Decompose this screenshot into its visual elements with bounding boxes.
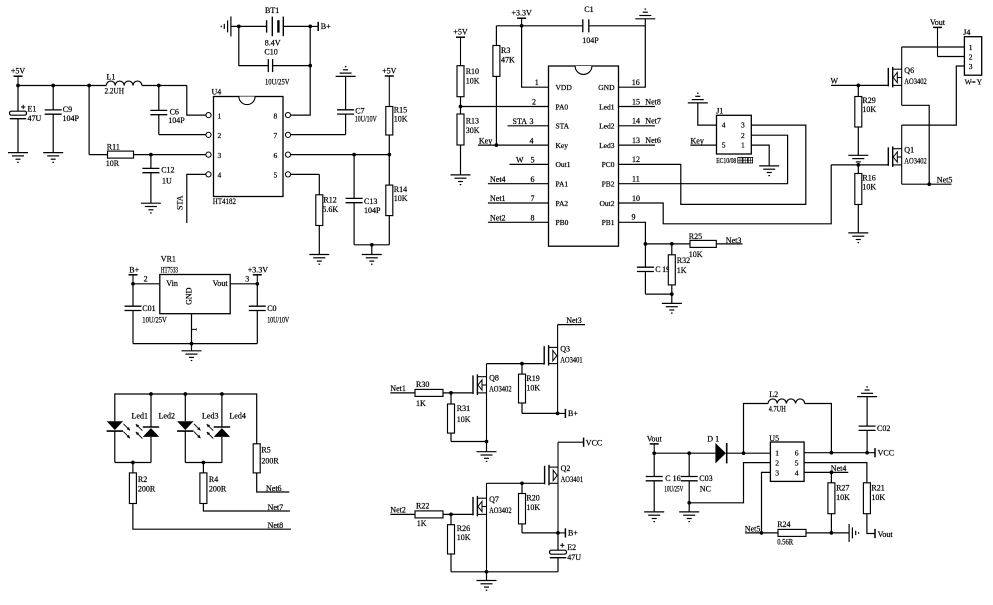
ground bbox=[679, 503, 699, 522]
wire bbox=[744, 404, 769, 454]
svg-text:10K: 10K bbox=[689, 250, 703, 259]
pin number 14 bbox=[632, 117, 640, 126]
svg-text:Net2: Net2 bbox=[490, 214, 506, 223]
pin number 2 bbox=[532, 97, 536, 106]
svg-text:1U: 1U bbox=[162, 176, 172, 185]
svg-text:14: 14 bbox=[632, 117, 640, 126]
svg-text:10K: 10K bbox=[526, 503, 540, 512]
pin number 11 bbox=[632, 175, 640, 184]
wire Net3 bbox=[558, 324, 585, 326]
svg-text:PB0: PB0 bbox=[556, 218, 569, 227]
svg-text:Out1: Out1 bbox=[556, 160, 571, 169]
svg-text:10U/25V: 10U/25V bbox=[142, 316, 167, 325]
svg-text:C1: C1 bbox=[584, 5, 593, 14]
wire bbox=[17, 119, 19, 153]
wire bbox=[88, 86, 90, 155]
svg-text:Vin: Vin bbox=[166, 279, 178, 288]
svg-text:+5V: +5V bbox=[382, 67, 397, 76]
wire pin16 GND bbox=[619, 26, 646, 87]
power port B+ bbox=[558, 409, 579, 418]
svg-text:Q7: Q7 bbox=[489, 495, 499, 504]
net label W bbox=[516, 156, 524, 165]
capacitor C9 104P bbox=[45, 86, 80, 153]
wire bbox=[114, 431, 116, 462]
resistor R3 47K bbox=[493, 26, 515, 145]
pin number 1 bbox=[190, 328, 199, 332]
resistor R20 10K bbox=[519, 483, 541, 533]
svg-text:5: 5 bbox=[274, 171, 278, 180]
svg-text:0.56R: 0.56R bbox=[777, 538, 794, 547]
svg-text:R2: R2 bbox=[138, 475, 147, 484]
svg-text:E2: E2 bbox=[567, 543, 576, 552]
svg-text:9: 9 bbox=[632, 213, 636, 222]
svg-text:R22: R22 bbox=[416, 502, 429, 511]
capacitor C03 NC bbox=[681, 453, 713, 503]
junction bbox=[449, 513, 453, 517]
wire W to Q6 gate bbox=[831, 84, 888, 86]
svg-text:R21: R21 bbox=[871, 484, 884, 493]
junction bbox=[87, 84, 91, 88]
wire pin1 VDD bbox=[522, 26, 549, 87]
net label Net3 bbox=[726, 236, 742, 245]
junction bbox=[830, 531, 834, 535]
svg-text:10K: 10K bbox=[871, 493, 885, 502]
junction bbox=[149, 392, 153, 396]
wire pin2 bbox=[461, 106, 549, 108]
svg-text:Y: Y bbox=[977, 78, 983, 87]
capacitor C7 10U/10V bbox=[337, 106, 377, 134]
junction bbox=[157, 84, 161, 88]
svg-text:BT1: BT1 bbox=[265, 6, 279, 15]
svg-text:Vout: Vout bbox=[647, 434, 663, 443]
wire VCC bbox=[558, 441, 584, 443]
svg-text:Net3: Net3 bbox=[726, 236, 742, 245]
wire J1 pin1 to ground bbox=[751, 145, 769, 166]
svg-text:Net8: Net8 bbox=[645, 97, 661, 106]
ground bbox=[831, 524, 858, 542]
svg-text:2: 2 bbox=[775, 458, 779, 467]
svg-text:Net8: Net8 bbox=[268, 521, 284, 530]
junction bbox=[308, 25, 312, 29]
wire ground rail bbox=[451, 571, 558, 573]
power port VCC bbox=[875, 448, 894, 458]
junction bbox=[687, 451, 691, 455]
transistor Q8 AO3402 bbox=[473, 364, 512, 442]
svg-text:2.2UH: 2.2UH bbox=[105, 86, 125, 95]
svg-text:Led3: Led3 bbox=[599, 141, 615, 150]
net label Net7 bbox=[645, 117, 661, 126]
junction bbox=[742, 451, 746, 455]
wire Q7 drain to Q2 gate bbox=[487, 482, 545, 484]
svg-text:10K: 10K bbox=[394, 194, 408, 203]
svg-text:1: 1 bbox=[969, 43, 973, 52]
svg-text:10K: 10K bbox=[457, 533, 471, 542]
svg-text:B+: B+ bbox=[321, 22, 331, 31]
svg-text:16: 16 bbox=[632, 78, 640, 87]
svg-text:5: 5 bbox=[722, 141, 726, 150]
power port B+ bbox=[310, 22, 331, 31]
svg-text:AO3402: AO3402 bbox=[489, 506, 512, 515]
svg-text:30K: 30K bbox=[466, 126, 480, 135]
resistor R31 10K bbox=[448, 393, 471, 442]
IC VR1 HT7533 bbox=[160, 254, 230, 313]
wire Q8 drain to Q3 gate bbox=[487, 363, 545, 365]
svg-text:3: 3 bbox=[245, 274, 249, 283]
svg-text:104P: 104P bbox=[582, 36, 599, 45]
net label Net1 bbox=[390, 384, 406, 393]
wire Net5 bbox=[902, 183, 952, 185]
svg-text:AO3401: AO3401 bbox=[561, 475, 584, 484]
wire Out2 net to Q1 gate bbox=[831, 164, 888, 166]
wire bbox=[150, 437, 152, 463]
power port Vout bbox=[647, 434, 663, 453]
net label STA bbox=[176, 195, 185, 210]
pin number 4 bbox=[530, 136, 534, 145]
svg-text:Net6: Net6 bbox=[645, 136, 661, 145]
junction bbox=[856, 163, 860, 167]
svg-text:Out2: Out2 bbox=[600, 199, 615, 208]
connector J4 W-Y bbox=[963, 28, 982, 87]
resistor R27 10K bbox=[828, 472, 850, 533]
capacitor E2 47U bbox=[550, 533, 582, 572]
svg-text:1: 1 bbox=[535, 78, 539, 87]
net label Net7 bbox=[268, 503, 284, 512]
ground bbox=[662, 294, 682, 313]
svg-text:7: 7 bbox=[274, 131, 278, 140]
junction bbox=[16, 84, 20, 88]
svg-text:10K: 10K bbox=[466, 77, 480, 86]
wire pin5 W bbox=[510, 163, 549, 165]
svg-text:C9: C9 bbox=[63, 105, 72, 114]
junction bbox=[183, 392, 187, 396]
svg-text:1K: 1K bbox=[417, 519, 427, 528]
net label Key bbox=[479, 136, 492, 145]
net label Key bbox=[691, 136, 704, 145]
svg-text:10U/25V: 10U/25V bbox=[265, 77, 290, 86]
wire bbox=[645, 243, 690, 245]
wire J4 pin3 to Q1 drain bbox=[902, 66, 965, 125]
power port B+ bbox=[129, 265, 140, 283]
ground bbox=[336, 67, 356, 110]
wire pin6 Net4 bbox=[488, 183, 549, 185]
net label Net5 bbox=[937, 175, 953, 184]
junction bbox=[670, 242, 674, 246]
wire bbox=[221, 437, 223, 463]
svg-text:10K: 10K bbox=[457, 415, 471, 424]
ground bbox=[477, 572, 497, 590]
junction bbox=[556, 412, 560, 416]
svg-text:STA: STA bbox=[556, 122, 570, 131]
junction bbox=[485, 570, 489, 574]
svg-text:2: 2 bbox=[969, 52, 973, 61]
svg-text:Q6: Q6 bbox=[904, 66, 914, 75]
wire bbox=[150, 394, 152, 427]
svg-text:10K: 10K bbox=[862, 105, 876, 114]
wire to U4 pin1 bbox=[187, 86, 206, 116]
wire bbox=[221, 394, 223, 427]
pin number 1 bbox=[535, 78, 539, 87]
net label Net1 bbox=[490, 194, 506, 203]
junction bbox=[485, 440, 489, 444]
wire U4 pin5 bbox=[291, 173, 320, 175]
net label Net8 bbox=[268, 521, 284, 530]
wire bbox=[727, 452, 771, 454]
transistor Q2 AO3401 bbox=[545, 442, 584, 533]
pin number 8 bbox=[531, 214, 535, 223]
svg-text:EC10/08: EC10/08 bbox=[716, 157, 736, 165]
wire pin8 Net2 bbox=[488, 221, 549, 223]
wire LED2 pair bottom bbox=[185, 462, 222, 464]
svg-text:R11: R11 bbox=[107, 142, 120, 151]
wire J1 pin4 to ground bbox=[698, 103, 717, 125]
wire bbox=[654, 452, 715, 454]
connector J1 EC10 encoder bbox=[716, 107, 752, 166]
wire VR1 pin2 bbox=[133, 283, 160, 285]
svg-text:47K: 47K bbox=[501, 56, 515, 65]
junction bbox=[760, 531, 764, 535]
net label Net6 bbox=[266, 484, 282, 493]
svg-text:10: 10 bbox=[632, 194, 640, 203]
svg-text:R19: R19 bbox=[526, 374, 539, 383]
ground bbox=[759, 166, 779, 176]
resistor R22 1K bbox=[390, 502, 473, 528]
svg-text:L2: L2 bbox=[769, 390, 778, 399]
svg-text:Led2: Led2 bbox=[159, 411, 175, 420]
svg-text:4: 4 bbox=[722, 121, 726, 130]
svg-text:Net6: Net6 bbox=[266, 484, 282, 493]
svg-text:+3.3V: +3.3V bbox=[248, 265, 269, 274]
pin number 3 bbox=[530, 117, 534, 126]
svg-text:Vout: Vout bbox=[930, 18, 946, 27]
pin number 9 bbox=[632, 213, 636, 222]
wire J1 pin5 Key bbox=[690, 144, 716, 146]
wire pin7 Net1 bbox=[488, 202, 549, 204]
wire to U4 pin2 bbox=[159, 134, 206, 136]
svg-text:8: 8 bbox=[531, 214, 535, 223]
junction bbox=[520, 24, 524, 28]
ground bbox=[362, 245, 382, 264]
junction bbox=[449, 391, 453, 395]
power port +3.3V bbox=[511, 9, 532, 26]
svg-text:Q8: Q8 bbox=[489, 374, 499, 383]
wire bbox=[645, 293, 671, 295]
svg-text:U5: U5 bbox=[769, 434, 779, 443]
wire U4 pin4 STA bbox=[187, 174, 206, 223]
svg-text:Q3: Q3 bbox=[560, 344, 570, 353]
junction bbox=[387, 153, 391, 157]
wire J4 pin1 bbox=[902, 46, 965, 48]
junction bbox=[131, 282, 135, 286]
transistor Q3 AO3401 bbox=[544, 325, 583, 414]
capacitor C12 1U bbox=[142, 155, 174, 204]
wire +5V rail bbox=[18, 85, 106, 87]
wire ground rail bbox=[133, 343, 257, 345]
pin number 7 bbox=[531, 194, 535, 203]
svg-text:R29: R29 bbox=[862, 96, 875, 105]
svg-text:2: 2 bbox=[741, 131, 745, 140]
svg-text:NC: NC bbox=[700, 484, 711, 493]
svg-text:10R: 10R bbox=[106, 159, 120, 168]
junction bbox=[220, 392, 224, 396]
junction bbox=[856, 84, 860, 88]
svg-text:200R: 200R bbox=[261, 457, 279, 466]
resistor R11 10R bbox=[89, 142, 206, 168]
svg-text:15: 15 bbox=[632, 97, 640, 106]
wire pin11 to J1 pin2 bbox=[619, 135, 788, 184]
svg-text:R3: R3 bbox=[501, 46, 510, 55]
svg-text:GND: GND bbox=[185, 287, 194, 305]
power port Vout bbox=[930, 18, 946, 57]
svg-text:B+: B+ bbox=[129, 265, 139, 274]
ground bbox=[309, 255, 329, 265]
svg-text:10K: 10K bbox=[394, 114, 408, 123]
LED Led1 bbox=[107, 411, 148, 438]
wire bbox=[867, 514, 875, 534]
svg-text:Led1: Led1 bbox=[599, 102, 615, 111]
svg-text:7: 7 bbox=[531, 194, 535, 203]
wire pin14 Net7 bbox=[619, 125, 656, 127]
transistor Q6 AO3402 bbox=[888, 47, 927, 105]
net label Net4 bbox=[831, 464, 847, 473]
wire U5 pin5 to R21 bbox=[804, 463, 867, 483]
ground bbox=[451, 175, 471, 185]
pin number 15 bbox=[632, 97, 640, 106]
svg-text:R30: R30 bbox=[416, 380, 429, 389]
svg-text:R27: R27 bbox=[836, 484, 849, 493]
ground bbox=[644, 512, 664, 522]
junction bbox=[652, 451, 656, 455]
svg-text:200R: 200R bbox=[209, 485, 227, 494]
inductor L1 2.2UH bbox=[105, 73, 142, 96]
svg-text:Net1: Net1 bbox=[390, 384, 406, 393]
power port Vout bbox=[875, 529, 893, 539]
svg-text:3: 3 bbox=[741, 121, 745, 130]
svg-text:R16: R16 bbox=[862, 174, 875, 183]
svg-text:+3.3V: +3.3V bbox=[511, 9, 532, 18]
svg-text:R10: R10 bbox=[466, 67, 479, 76]
svg-text:GND: GND bbox=[598, 83, 615, 92]
svg-text:J1: J1 bbox=[716, 107, 723, 116]
wire J4 pin2 bbox=[938, 56, 965, 58]
net label Net3 bbox=[566, 316, 582, 325]
wire B+ to U4 pin8 bbox=[291, 26, 311, 115]
svg-text:Net4: Net4 bbox=[490, 175, 506, 184]
capacitor C16 10U/25V bbox=[646, 453, 684, 512]
pin number 2 bbox=[144, 274, 148, 283]
svg-text:AO3402: AO3402 bbox=[904, 157, 927, 166]
wire bbox=[805, 404, 832, 453]
svg-text:12: 12 bbox=[632, 155, 640, 164]
IC U5 bbox=[769, 434, 804, 481]
svg-text:4: 4 bbox=[218, 171, 222, 180]
net label Net5 bbox=[745, 524, 761, 533]
svg-text:10K: 10K bbox=[526, 384, 540, 393]
junction bbox=[670, 292, 674, 296]
pin number 5 bbox=[531, 156, 535, 165]
capacitor C13 104P bbox=[346, 155, 381, 245]
junction bbox=[149, 153, 153, 157]
svg-text:1K: 1K bbox=[677, 266, 687, 275]
svg-text:104P: 104P bbox=[364, 206, 381, 215]
svg-text:C0: C0 bbox=[267, 304, 276, 313]
svg-text:2: 2 bbox=[144, 274, 148, 283]
svg-text:13: 13 bbox=[632, 136, 640, 145]
svg-text:HT4182: HT4182 bbox=[213, 197, 236, 206]
svg-text:R32: R32 bbox=[677, 256, 690, 265]
wire pin4 Key bbox=[478, 144, 549, 146]
svg-text:1: 1 bbox=[190, 328, 199, 332]
svg-text:PC0: PC0 bbox=[602, 160, 615, 169]
svg-text:Led1: Led1 bbox=[132, 411, 148, 420]
svg-text:R20: R20 bbox=[526, 494, 539, 503]
ground bbox=[688, 93, 708, 103]
ground bbox=[8, 153, 28, 163]
wire U5 pin6 VCC bbox=[804, 452, 875, 454]
svg-text:10U/25V: 10U/25V bbox=[664, 484, 683, 493]
transistor Q7 AO3402 bbox=[473, 483, 512, 572]
svg-text:6: 6 bbox=[274, 151, 278, 160]
wire bbox=[354, 244, 389, 246]
svg-text:+5V: +5V bbox=[453, 28, 468, 37]
capacitor C19 bbox=[637, 244, 670, 294]
resistor R32 1K bbox=[668, 244, 690, 294]
capacitor C0 10U/10V bbox=[249, 284, 290, 344]
wire pin3 STA bbox=[508, 125, 549, 127]
ground bbox=[182, 344, 202, 361]
junction bbox=[520, 362, 524, 366]
svg-text:R13: R13 bbox=[466, 117, 479, 126]
svg-text:Q1: Q1 bbox=[904, 146, 914, 155]
svg-text:8: 8 bbox=[274, 111, 278, 120]
resistor R29 10K bbox=[855, 85, 877, 155]
junction bbox=[687, 501, 691, 505]
junction bbox=[927, 182, 931, 186]
svg-text:10U/10V: 10U/10V bbox=[355, 114, 377, 123]
resistor R15 10K bbox=[386, 105, 408, 154]
svg-text:2: 2 bbox=[532, 97, 536, 106]
svg-text:PB1: PB1 bbox=[602, 218, 615, 227]
wire U5 pin2 route bbox=[689, 463, 770, 503]
IC U2 16-pin MCU bbox=[549, 66, 619, 246]
junction bbox=[644, 242, 648, 246]
svg-text:47U: 47U bbox=[28, 114, 42, 123]
wire bbox=[184, 431, 186, 462]
svg-text:VR1: VR1 bbox=[161, 254, 176, 263]
svg-text:Net5: Net5 bbox=[937, 175, 953, 184]
svg-text:R14: R14 bbox=[394, 185, 407, 194]
resistor R4 200R bbox=[200, 463, 227, 504]
svg-text:C12: C12 bbox=[161, 165, 174, 174]
junction bbox=[370, 243, 374, 247]
battery BT1 8.4V bbox=[231, 6, 310, 48]
wire pin10 Out2 to Q1 gate bbox=[619, 165, 832, 224]
svg-text:2: 2 bbox=[218, 131, 222, 140]
transistor Q1 AO3402 bbox=[888, 125, 927, 184]
junction bbox=[865, 451, 869, 455]
svg-text:W: W bbox=[516, 156, 524, 165]
svg-text:Net7: Net7 bbox=[268, 503, 284, 512]
svg-text:3: 3 bbox=[218, 151, 222, 160]
svg-text:C 16: C 16 bbox=[665, 474, 680, 483]
capacitor C10 10U/25V bbox=[264, 48, 310, 87]
svg-text:E1: E1 bbox=[28, 105, 37, 114]
svg-text:VDD: VDD bbox=[556, 83, 573, 92]
wire Net7 bbox=[203, 504, 290, 512]
power port +5V bbox=[11, 67, 26, 86]
LED Led4 bbox=[207, 411, 246, 438]
ground bbox=[43, 153, 63, 163]
wire pin15 Net8 bbox=[619, 106, 656, 108]
